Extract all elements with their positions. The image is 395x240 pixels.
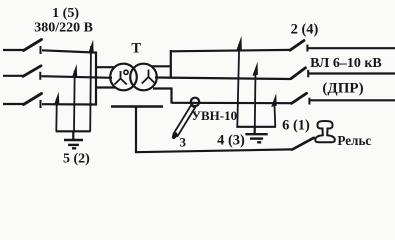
disconnector QS5 fixed contact — [307, 70, 309, 78]
wire right ground stem — [254, 127, 256, 134]
wire LV vertical bus — [95, 52, 97, 106]
ground lead 5(2) phase C, arrow head — [54, 92, 60, 106]
svg-text:3: 3 — [179, 135, 186, 150]
wire L3 to bus — [42, 103, 97, 106]
svg-text:УВН-10: УВН-10 — [191, 108, 237, 123]
svg-text:(ДПР): (ДПР) — [322, 80, 363, 96]
switch QS3 blade (phase C LV) — [24, 94, 42, 105]
UVN-10 insulating rod — [174, 105, 196, 136]
switch QS1 blade (phase A LV) — [24, 40, 42, 51]
wire bottom earthing bus to rail — [135, 149, 292, 152]
disconnector QS4 blade (2(4) phase 1) — [290, 41, 304, 51]
wire VL line phase 2 — [309, 72, 395, 74]
ground lead 4(3) phase 1, wire — [237, 44, 239, 127]
UVN-10 hook ring — [191, 98, 199, 106]
wire VL line phase 1 — [308, 47, 395, 49]
switch QS3 fixed contact — [40, 100, 42, 108]
wire neutral tap down — [135, 107, 137, 153]
wire HV riser phase 1 — [170, 50, 172, 78]
disconnector QS5 blade (phase 2) — [291, 68, 306, 79]
wire L1 stub — [3, 49, 24, 51]
wire VL line phase 3 — [310, 99, 395, 101]
UVN-10 handle end — [171, 131, 179, 140]
svg-text:4 (3): 4 (3) — [217, 133, 245, 149]
winding neutral dot (left) — [124, 70, 128, 74]
winding connection star symbol (right) — [142, 70, 155, 84]
wire left ground stem — [72, 131, 74, 140]
wire upper stub to transformer primary — [95, 66, 115, 68]
ground symbol right (earth 4) — [245, 134, 267, 142]
ground lead 4(3) phase 2, wire — [254, 70, 257, 127]
ground lead 5(2) phase B, wire — [73, 71, 76, 132]
wire lower stub from transformer HV — [153, 87, 173, 89]
svg-text:1 (5): 1 (5) — [52, 6, 79, 21]
wire lower stub to transformer primary — [95, 86, 115, 88]
wire HV phase 3 (DPR) — [172, 102, 292, 105]
transformer T secondary winding circle — [130, 64, 157, 91]
wire LV neutral bar under transformer — [111, 105, 163, 108]
svg-text:380/220 В: 380/220 В — [34, 20, 93, 35]
svg-text:ВЛ 6–10 кВ: ВЛ 6–10 кВ — [310, 56, 382, 71]
switch QS2 blade (phase B LV) — [23, 66, 41, 77]
ground lead 4(3) phase 1, arrow head — [236, 36, 242, 51]
wire L1 to bus — [42, 50, 97, 52]
ground lead 4(3) phase 2, arrow head — [252, 62, 258, 76]
ground symbol left (earth 5) — [64, 140, 83, 148]
winding connection star symbol (left) — [115, 71, 127, 85]
svg-text:5 (2): 5 (2) — [63, 152, 90, 167]
svg-text:2 (4): 2 (4) — [291, 22, 319, 38]
ground lead 5(2) phase B, arrow head — [72, 64, 78, 78]
ground lead 4(3) phase 3, wire — [274, 101, 275, 128]
wire L2 to bus — [42, 76, 113, 78]
wire right ground bus — [236, 126, 276, 128]
switch 6(1) blade to rail — [292, 138, 314, 150]
disconnector QS4 fixed contact — [306, 45, 308, 52]
wire left ground bus — [56, 130, 91, 132]
wire HV phase 1 — [170, 50, 291, 51]
svg-text:Т: Т — [131, 40, 141, 56]
rail profile icon — [315, 121, 335, 142]
wire HV dropper phase 3 — [170, 88, 172, 104]
ground lead 5(2) phase A, arrow head — [88, 40, 94, 54]
transformer T primary winding circle — [110, 64, 137, 91]
disconnector QS6 fixed contact — [308, 98, 310, 105]
ground lead 5(2) phase C, wire — [55, 99, 58, 132]
wire HV phase 2 — [155, 78, 291, 80]
switch QS1 fixed contact — [40, 46, 42, 54]
disconnector QS6 blade (phase 3) — [292, 93, 307, 103]
ground lead 5(2) phase A, wire — [89, 46, 92, 132]
svg-text:Рельс: Рельс — [337, 133, 371, 148]
ground lead 4(3) phase 3, arrow head — [271, 93, 277, 107]
switch QS2 fixed contact — [39, 72, 41, 80]
wire upper stub from transformer HV — [152, 65, 172, 67]
wire L2 stub — [3, 75, 23, 77]
wire L3 stub — [3, 103, 24, 105]
svg-text:6 (1): 6 (1) — [282, 118, 310, 134]
